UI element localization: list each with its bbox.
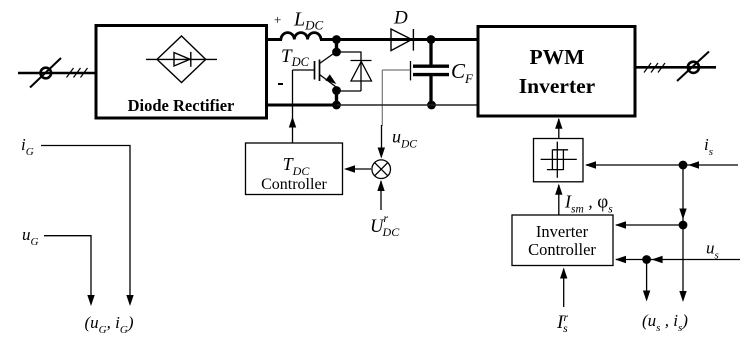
i_G measurement wire [41, 146, 134, 307]
AC output wire [635, 66, 716, 69]
AC input connection circle [30, 58, 61, 88]
svg-text:(us , is): (us , is) [642, 311, 688, 334]
node emitter [332, 86, 341, 95]
svg-text:CF: CF [451, 59, 474, 86]
i_s to controller wire [615, 221, 683, 228]
svg-text:iG: iG [21, 135, 34, 158]
svg-text:Controller: Controller [261, 176, 327, 193]
Inverter Controller box [512, 215, 613, 266]
PWM Inverter box [478, 27, 635, 117]
node i_s [679, 161, 688, 170]
u_s measurement arrow [643, 260, 650, 302]
emitter tap wire [335, 91, 338, 106]
T_DC Controller box [246, 143, 343, 195]
svg-text:+: + [274, 12, 281, 27]
node at capacitor top [427, 35, 436, 44]
T_DC Controller label [261, 154, 327, 193]
svg-text:Irs: Irs [556, 310, 568, 335]
AC output connection circle [677, 52, 709, 82]
capacitor C_F [413, 40, 449, 106]
three-phase marks input [67, 68, 88, 78]
node collector [332, 48, 341, 57]
svg-text:TDC: TDC [281, 46, 310, 69]
top DC rail [265, 38, 479, 41]
i_s measurement arrow [679, 225, 686, 302]
rectifier diamond symbol [146, 36, 217, 83]
controller to modulator arrow [555, 184, 562, 215]
svg-text:Inverter: Inverter [536, 222, 589, 241]
node on bottom rail [332, 101, 341, 110]
U_DC reference arrow [377, 180, 384, 210]
gate drive wire [289, 70, 296, 143]
i_s input wire [683, 161, 738, 168]
bottom DC rail thick [265, 104, 337, 107]
three-phase marks output [644, 63, 665, 73]
Diode Rectifier box [96, 26, 267, 119]
svg-text:PWM: PWM [530, 45, 585, 69]
diode D [391, 29, 413, 51]
PWM Inverter label [519, 45, 596, 98]
IGBT collector tap wire [335, 40, 338, 53]
modulator to inverter arrow [555, 118, 562, 139]
svg-text:uDC: uDC [392, 127, 417, 151]
bottom DC rail thin [337, 104, 480, 106]
hysteresis modulator box [534, 139, 584, 182]
svg-text:(uG, iG): (uG, iG) [85, 313, 134, 336]
node at capacitor bottom [427, 101, 436, 110]
u_G measurement wire [44, 236, 95, 306]
minus polarity label [278, 83, 283, 85]
svg-text:Diode Rectifier: Diode Rectifier [128, 96, 235, 115]
AC input wire [18, 72, 96, 75]
inductor L_DC [281, 33, 321, 40]
node u_s [642, 255, 651, 264]
transistor T_DC [293, 52, 337, 87]
svg-text:is: is [704, 135, 713, 158]
svg-text:Controller: Controller [528, 240, 596, 259]
u_s input wire [647, 256, 740, 263]
svg-text:D: D [393, 8, 408, 29]
u_s to controller wire [615, 256, 647, 263]
node after inductor [332, 35, 341, 44]
svg-text:us: us [706, 239, 719, 262]
summing output arrow to controller [344, 165, 371, 172]
svg-text:UrDC: UrDC [370, 211, 400, 239]
summing junction [372, 160, 391, 179]
I_s reference arrow [560, 268, 567, 308]
svg-text:LDC: LDC [293, 9, 324, 33]
Inverter Controller label [528, 222, 596, 259]
hysteresis symbol [541, 142, 577, 178]
i_s branch down wire [679, 165, 686, 225]
freewheel diode [337, 52, 372, 92]
i_s to modulator wire [585, 161, 683, 168]
u_DC sense tap [378, 61, 411, 159]
svg-text:Ism , φs: Ism , φs [564, 192, 613, 216]
svg-text:uG: uG [22, 225, 39, 248]
svg-text:Inverter: Inverter [519, 74, 596, 98]
node i_s branch [679, 221, 688, 230]
